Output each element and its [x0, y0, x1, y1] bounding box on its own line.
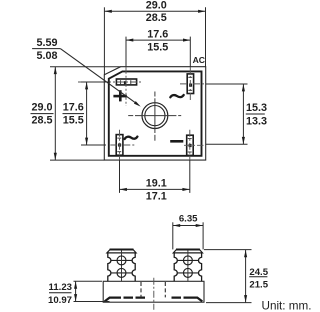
body outline (top view, outer) — [104, 67, 205, 160]
left tower body (wavy sides) — [108, 253, 135, 281]
svg-text:17.6: 17.6 — [63, 101, 84, 113]
front view: base recess thick line (left) — [105, 298, 145, 302]
body outline (top view, inner thick) — [109, 71, 202, 155]
svg-text:AC: AC — [193, 55, 205, 65]
tilde symbol bottom-left — [125, 137, 138, 139]
terminal top-right (AC tab) — [187, 74, 193, 94]
dim 29.0/28.5 left: extension lines — [50, 66, 121, 68]
dim 6.35: extension lines — [172, 222, 174, 249]
right tower body (wavy sides) — [174, 253, 201, 281]
dim 11.23/10.97: dimension line and arrows — [75, 281, 77, 301]
left tower holes — [117, 256, 126, 265]
right tower holes — [183, 256, 192, 265]
svg-text:28.5: 28.5 — [146, 12, 167, 24]
mounting hole (inner circle) — [145, 106, 165, 126]
terminal top-left (horizontal, + tab) — [116, 79, 136, 85]
dim 29.0/28.5 left: dimension line and arrows — [54, 67, 56, 160]
dim 29.0/28.5 top: extension lines — [103, 7, 105, 75]
svg-text:6.35: 6.35 — [179, 214, 198, 225]
right tower centerline — [187, 250, 189, 281]
front view: base block — [103, 281, 204, 302]
dim 29.0/28.5 top: dimension line and arrows — [105, 10, 206, 12]
svg-text:13.3: 13.3 — [246, 115, 267, 127]
terminal bottom-left (AC tab) — [116, 135, 123, 156]
svg-text:15.5: 15.5 — [63, 115, 84, 127]
minus symbol — [170, 140, 183, 143]
dim 24.5/21.5: extension lines — [204, 249, 252, 251]
centerline top-left terminal vertical — [125, 37, 127, 67]
centerline top-right terminal horizontal — [180, 83, 206, 85]
right tower groove lines — [178, 259, 199, 261]
dim 17.6/15.5 left: extension lines — [81, 81, 110, 83]
front view: left terminal tower — [107, 250, 136, 282]
svg-text:11.23: 11.23 — [49, 282, 72, 293]
svg-text:15.3: 15.3 — [246, 102, 267, 114]
dim 15.3/13.3 right: dimension line and arrows — [242, 84, 244, 144]
leader line for 5.59/5.08 — [60, 49, 135, 103]
tilde symbol top-right — [170, 95, 183, 97]
dim 17.6/15.5 top: dimension line and arrows — [126, 39, 190, 41]
right tower cap — [173, 250, 202, 253]
svg-text:21.5: 21.5 — [249, 280, 268, 291]
mounting hole (outer circle) — [142, 103, 168, 129]
svg-text:15.5: 15.5 — [147, 42, 168, 54]
dim 24.5/21.5: dimension line and arrows — [245, 250, 247, 302]
centerline bottom-right terminal horizontal — [184, 144, 204, 146]
centerline bottom-left terminal vertical — [119, 130, 121, 160]
left tower groove lines — [111, 259, 132, 261]
dim 11.23/10.97: extension lines — [74, 280, 103, 282]
front view: hole centerline — [153, 278, 155, 310]
dim 19.1/17.1 bottom: dimension line and arrows — [120, 188, 190, 190]
left tower centerline — [121, 250, 123, 281]
svg-text:29.0: 29.0 — [146, 0, 167, 12]
svg-text:5.08: 5.08 — [36, 50, 57, 62]
plus symbol — [113, 90, 126, 101]
front view: base recess thick line (right) — [172, 298, 203, 302]
centerline top-left terminal horizontal — [78, 81, 142, 83]
svg-text:29.0: 29.0 — [31, 101, 52, 113]
left tower cap — [107, 250, 136, 253]
svg-text:17.1: 17.1 — [146, 190, 167, 202]
dim 15.3/13.3 right: extension lines — [206, 83, 248, 85]
svg-text:28.5: 28.5 — [31, 115, 52, 127]
centerline top-right terminal vertical — [189, 37, 191, 67]
svg-text:5.59: 5.59 — [36, 37, 57, 49]
front view: right terminal tower — [173, 250, 202, 282]
centerline bottom-left terminal horizontal — [110, 144, 134, 146]
centerline bottom-right terminal vertical — [189, 130, 191, 160]
dim 6.35: dimension line and arrows — [173, 225, 203, 227]
dim 17.6/15.5 left: dimension line and arrows — [86, 82, 88, 145]
terminal bottom-right (- tab) — [187, 135, 194, 155]
svg-text:Unit: mm.: Unit: mm. — [262, 299, 312, 312]
svg-text:17.6: 17.6 — [147, 29, 168, 41]
svg-text:10.97: 10.97 — [48, 295, 72, 306]
hole centerline horizontal — [128, 115, 181, 117]
svg-text:19.1: 19.1 — [146, 177, 167, 189]
hole centerline vertical — [154, 92, 156, 141]
front view: hidden hole lines — [140, 282, 142, 297]
